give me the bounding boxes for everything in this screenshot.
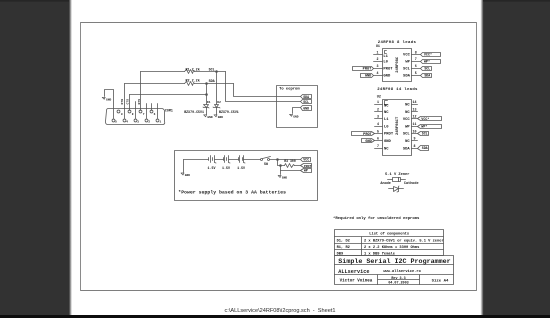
U1 pin 5 SDA bbox=[412, 75, 421, 77]
svg-text:VCC*: VCC* bbox=[424, 53, 432, 58]
wire switch to VCC flag bbox=[270, 159, 301, 161]
U1 flag SCL bbox=[421, 67, 432, 71]
svg-text:10: 10 bbox=[413, 129, 417, 133]
svg-text:SCL: SCL bbox=[209, 68, 215, 72]
flag WP bbox=[301, 169, 312, 173]
connector COM1 DB9 outline bbox=[106, 109, 165, 125]
wire to WP flag bbox=[281, 166, 301, 171]
box To eeprom bbox=[277, 86, 318, 128]
svg-text:VCC: VCC bbox=[303, 158, 309, 162]
U1 pin 7 WP bbox=[412, 61, 421, 63]
COM1 pin 9 bbox=[117, 110, 120, 113]
U1 flag GND bbox=[361, 74, 374, 78]
wire down to D1 bbox=[206, 84, 208, 105]
flag PROT bbox=[301, 164, 312, 168]
svg-text:D1: D1 bbox=[207, 101, 211, 104]
svg-text:SDA: SDA bbox=[424, 73, 430, 77]
resistor R3 300 bbox=[285, 164, 295, 168]
power supply box bbox=[175, 151, 318, 201]
COM1 pin 6 bbox=[150, 110, 153, 113]
U2 flag VCC* bbox=[418, 117, 442, 121]
junction SCL/D2 bbox=[216, 71, 218, 73]
svg-text:5: 5 bbox=[415, 71, 417, 75]
wire CTS to SDA junction bbox=[130, 94, 207, 96]
svg-text:R3 300: R3 300 bbox=[284, 159, 296, 163]
svg-text:PROT: PROT bbox=[304, 164, 312, 168]
wire battery1 to battery2 bbox=[215, 159, 224, 161]
U2 pin 3 L1 bbox=[375, 118, 383, 120]
svg-text:GND: GND bbox=[365, 75, 372, 79]
svg-text:WP*: WP* bbox=[424, 60, 430, 65]
U1 flag WP* bbox=[421, 60, 441, 64]
U1 flag SDA bbox=[421, 74, 432, 78]
svg-text:SDA: SDA bbox=[403, 74, 411, 78]
U2 pin 9 NC bbox=[412, 140, 418, 142]
wire RTS vertical from pin 7 bbox=[140, 72, 142, 111]
svg-text:*Required only for unsoldered: *Required only for unsoldered eeproms bbox=[333, 216, 420, 221]
ground below WP bbox=[278, 176, 287, 180]
svg-text:L0: L0 bbox=[383, 61, 388, 65]
svg-text:24RF08CT: 24RF08CT bbox=[396, 116, 400, 135]
svg-text:3: 3 bbox=[137, 121, 139, 124]
COM1 pin 7 bbox=[139, 110, 142, 113]
U2 pin 2 NC bbox=[375, 111, 383, 113]
svg-text:NC: NC bbox=[384, 147, 389, 151]
svg-text:ALLservice: ALLservice bbox=[338, 269, 369, 275]
svg-text:5: 5 bbox=[377, 129, 379, 133]
svg-text:NC: NC bbox=[405, 111, 410, 115]
wire down to D2 bbox=[216, 72, 218, 105]
U1 pin 8 VCC bbox=[412, 54, 421, 56]
wire battery2 to battery3 bbox=[229, 159, 239, 161]
U2 pin 12 VCC bbox=[412, 118, 418, 120]
svg-text:GND: GND bbox=[365, 140, 372, 144]
svg-text:Simple Serial I2C Programmer: Simple Serial I2C Programmer bbox=[338, 258, 450, 266]
wire CTS vertical from pin 8 bbox=[129, 95, 131, 111]
svg-text:D2: D2 bbox=[217, 101, 221, 104]
svg-text:L1: L1 bbox=[384, 118, 389, 122]
svg-text:1.5V: 1.5V bbox=[208, 166, 216, 170]
svg-text:14: 14 bbox=[413, 100, 417, 104]
flag SDA in eeprom box bbox=[301, 95, 312, 99]
svg-text:1.5V: 1.5V bbox=[237, 166, 245, 170]
svg-text:NC: NC bbox=[405, 140, 410, 144]
svg-text:8: 8 bbox=[415, 50, 417, 54]
svg-text:WP: WP bbox=[405, 125, 410, 129]
svg-text:2: 2 bbox=[148, 121, 150, 124]
svg-text:L0: L0 bbox=[384, 125, 389, 129]
svg-text:24RF08 14 leads: 24RF08 14 leads bbox=[377, 87, 418, 92]
svg-text:VCC: VCC bbox=[403, 54, 411, 58]
IC U2 body bbox=[383, 100, 412, 156]
wire to battery 1 bbox=[184, 159, 209, 161]
svg-text:WP: WP bbox=[304, 169, 308, 173]
wire R1 to SCL corner bbox=[195, 71, 226, 73]
U2 pin 1 NC bbox=[375, 104, 383, 106]
svg-text:PROT: PROT bbox=[363, 68, 372, 72]
svg-text:4: 4 bbox=[126, 121, 128, 124]
svg-text:04.07.2003: 04.07.2003 bbox=[388, 282, 408, 286]
junction SDA/D1 bbox=[206, 83, 208, 85]
svg-text:VCC*: VCC* bbox=[421, 117, 429, 122]
right letterbox bar bbox=[484, 0, 550, 315]
svg-text:SDA: SDA bbox=[403, 147, 411, 151]
U1 pin 3 PROT bbox=[374, 68, 383, 70]
svg-text:GND: GND bbox=[303, 106, 309, 110]
stub COM1 pin 2 bbox=[146, 104, 148, 119]
svg-text:4: 4 bbox=[377, 71, 379, 75]
wire WP to ground bbox=[280, 171, 282, 175]
svg-text:1: 1 bbox=[377, 100, 379, 104]
COM1 pin 8 bbox=[128, 110, 131, 113]
table list of components bbox=[335, 230, 444, 256]
U1 flag VCC* bbox=[421, 53, 441, 57]
svg-text:7: 7 bbox=[143, 113, 145, 116]
title block bbox=[335, 256, 454, 285]
svg-text:NC: NC bbox=[384, 111, 389, 115]
svg-text:2 x 2.2 KOhms = 3300 Ohms: 2 x 2.2 KOhms = 3300 Ohms bbox=[364, 245, 419, 250]
svg-text:1.5V: 1.5V bbox=[222, 166, 230, 170]
svg-text:VCC: VCC bbox=[403, 118, 411, 122]
svg-text:1: 1 bbox=[160, 121, 162, 124]
svg-text:SW: SW bbox=[264, 162, 268, 166]
svg-text:U2: U2 bbox=[377, 96, 381, 100]
svg-text:6: 6 bbox=[154, 113, 156, 116]
svg-text:12: 12 bbox=[413, 115, 417, 119]
switch SW bbox=[261, 159, 263, 161]
svg-text:SCL: SCL bbox=[424, 67, 430, 71]
ground in eeprom box bbox=[290, 114, 299, 118]
stub COM1 pin 3 bbox=[135, 102, 137, 119]
svg-text:List of components: List of components bbox=[369, 232, 409, 237]
svg-text:13: 13 bbox=[413, 107, 417, 111]
svg-text:8: 8 bbox=[414, 144, 416, 148]
U1 pin 2 L0 bbox=[374, 61, 383, 63]
U2 pin 4 L0 bbox=[375, 126, 383, 128]
svg-text:2 x BZX79-C5V1 or equiv. 5.1 V: 2 x BZX79-C5V1 or equiv. 5.1 V zener bbox=[364, 238, 444, 243]
U2 pin 8 SDA bbox=[412, 148, 418, 150]
U1 pin 1 L1 bbox=[374, 54, 383, 56]
svg-text:DTR: DTR bbox=[120, 99, 124, 105]
U2 flag SCL bbox=[418, 132, 429, 136]
svg-text:U1: U1 bbox=[376, 45, 380, 49]
U2 pin 11 WP bbox=[412, 126, 418, 128]
svg-text:Victor Voinea: Victor Voinea bbox=[340, 278, 373, 283]
svg-text:PROT: PROT bbox=[384, 133, 394, 137]
wire SDA down to eeprom box bbox=[234, 84, 301, 97]
svg-text:CTS: CTS bbox=[126, 99, 130, 105]
wire COM1 pin5 to ground bbox=[105, 90, 114, 119]
wire battery left to ground bbox=[183, 160, 185, 173]
flag SCL in eeprom box bbox=[301, 100, 312, 104]
svg-text:2: 2 bbox=[377, 107, 379, 111]
svg-text:NC: NC bbox=[405, 104, 410, 108]
U2 pin 7 NC bbox=[375, 148, 383, 150]
svg-text:BZX79-C5V1: BZX79-C5V1 bbox=[184, 110, 204, 114]
svg-text:2: 2 bbox=[377, 57, 379, 61]
COM1 pin 4 bbox=[123, 119, 126, 122]
legend zener package bbox=[388, 179, 393, 181]
junction CTS/D1 bbox=[206, 94, 208, 96]
COM1 pin 1 bbox=[156, 119, 159, 122]
svg-text:SCL: SCL bbox=[403, 68, 411, 72]
U2 pin 13 NC bbox=[412, 111, 418, 113]
svg-text:COM1: COM1 bbox=[165, 108, 173, 112]
svg-text:5.1 V Zener: 5.1 V Zener bbox=[385, 173, 409, 177]
svg-text:6: 6 bbox=[377, 137, 379, 141]
COM1 pin 2 bbox=[145, 119, 148, 122]
stub COM1 pin 6 bbox=[151, 104, 153, 111]
U2 flag SDA bbox=[418, 146, 429, 151]
svg-text:SDA: SDA bbox=[422, 146, 428, 150]
U2 pin 5 PROT bbox=[375, 133, 383, 135]
svg-text:NC: NC bbox=[384, 105, 389, 109]
U2 flag GND bbox=[362, 139, 375, 143]
wire RTS to R1 bbox=[141, 71, 185, 73]
wire GND flag to ground bbox=[293, 108, 301, 114]
svg-text:BZX79-C5V1: BZX79-C5V1 bbox=[219, 110, 239, 114]
svg-text:7: 7 bbox=[377, 144, 379, 148]
resistor R1 2.2k bbox=[185, 70, 195, 74]
svg-text:1: 1 bbox=[377, 50, 379, 54]
wire R2 to SDA corner bbox=[195, 83, 234, 85]
battery B2 1.5V bbox=[224, 156, 231, 164]
flag VCC bbox=[301, 158, 311, 162]
svg-text:*Power supply based on 3 AA ba: *Power supply based on 3 AA batteries bbox=[178, 189, 286, 195]
svg-text:6: 6 bbox=[415, 64, 417, 68]
svg-text:24RF08C: 24RF08C bbox=[396, 56, 400, 73]
svg-text:Cathode: Cathode bbox=[404, 181, 419, 186]
wire SCL down to eeprom box bbox=[226, 72, 301, 102]
svg-text:9: 9 bbox=[414, 137, 416, 141]
ground battery minus bbox=[181, 173, 190, 177]
svg-text:To eeprom: To eeprom bbox=[279, 87, 300, 92]
svg-text:RTS: RTS bbox=[137, 99, 141, 105]
ground below D2 bbox=[214, 115, 223, 119]
svg-text:PROT: PROT bbox=[383, 68, 393, 72]
svg-text:R1, R2: R1, R2 bbox=[337, 246, 350, 250]
svg-text:SDA: SDA bbox=[303, 95, 309, 99]
svg-text:SCL: SCL bbox=[422, 132, 428, 136]
wire DTR to R2 bbox=[125, 83, 185, 85]
svg-text:3: 3 bbox=[377, 64, 379, 68]
IC U1 body bbox=[383, 49, 412, 82]
svg-text:4: 4 bbox=[377, 122, 379, 126]
wire battery3 to switch bbox=[244, 159, 261, 161]
ground at COM1 pin5 bbox=[102, 97, 111, 101]
svg-text:WP: WP bbox=[405, 61, 410, 65]
sheet frame bbox=[81, 23, 477, 291]
stub COM1 pin 1 bbox=[157, 104, 159, 119]
svg-text:24RF08 8 leads: 24RF08 8 leads bbox=[378, 40, 417, 45]
svg-text:GND: GND bbox=[383, 75, 391, 79]
U1 pin 6 SCL bbox=[412, 68, 421, 70]
U1 pin 4 GND bbox=[374, 75, 383, 77]
svg-text:SCL: SCL bbox=[403, 133, 411, 137]
svg-text:PROT: PROT bbox=[363, 133, 372, 137]
svg-text:www.allservice.ro: www.allservice.ro bbox=[383, 269, 421, 274]
U2 pin 14 NC bbox=[412, 104, 418, 106]
svg-text:WP*: WP* bbox=[421, 124, 427, 129]
bottom black bar bbox=[0, 315, 550, 318]
legend zener symbol bbox=[389, 188, 394, 190]
U1 flag PROT bbox=[353, 67, 374, 71]
wire R3 to PROT flag bbox=[295, 165, 301, 167]
svg-text:11: 11 bbox=[413, 122, 417, 126]
U2 pin 6 GND bbox=[375, 140, 383, 142]
svg-text:Anode: Anode bbox=[380, 181, 391, 186]
resistor R2 2.2k bbox=[185, 82, 195, 86]
battery B3 1.5V bbox=[239, 156, 246, 164]
svg-text:c:\ALLservice\24RF08\i2cprog.s: c:\ALLservice\24RF08\i2cprog.sch - Sheet… bbox=[225, 308, 336, 314]
svg-text:5: 5 bbox=[115, 121, 117, 124]
svg-text:3: 3 bbox=[377, 115, 379, 119]
svg-text:D1, D2: D1, D2 bbox=[337, 239, 350, 243]
svg-text:L1: L1 bbox=[383, 55, 388, 59]
wire DTR vertical from pin 4 bbox=[124, 84, 126, 119]
battery B1 1.5V bbox=[209, 156, 217, 164]
junction after switch bbox=[277, 159, 279, 161]
svg-text:R2 2.2k: R2 2.2k bbox=[186, 78, 200, 83]
U2 flag PROT bbox=[352, 132, 375, 136]
junction R3/WP bbox=[280, 165, 282, 167]
svg-text:Rev 3.3: Rev 3.3 bbox=[391, 277, 405, 281]
flag GND in eeprom box bbox=[301, 106, 312, 111]
svg-text:Size A4: Size A4 bbox=[432, 278, 449, 283]
svg-text:8: 8 bbox=[132, 113, 134, 116]
svg-text:SDA: SDA bbox=[209, 80, 216, 84]
COM1 pin 5 bbox=[112, 119, 115, 122]
ground below D1 bbox=[204, 115, 213, 119]
COM1 pin 3 bbox=[134, 119, 137, 122]
svg-text:9: 9 bbox=[121, 113, 123, 116]
wire junction to R3 bbox=[278, 160, 285, 166]
svg-text:SCL: SCL bbox=[303, 100, 309, 104]
left letterbox bar bbox=[0, 0, 69, 315]
U2 flag WP* bbox=[418, 125, 442, 129]
U2 pin 10 SCL bbox=[412, 133, 418, 135]
zener D1 BZX79-C5V1 bbox=[204, 105, 209, 108]
svg-text:GND: GND bbox=[384, 140, 392, 144]
zener D2 BZX79-C5V1 bbox=[215, 105, 219, 108]
svg-text:7: 7 bbox=[415, 57, 417, 61]
top darker edge of bars bbox=[0, 0, 69, 2]
